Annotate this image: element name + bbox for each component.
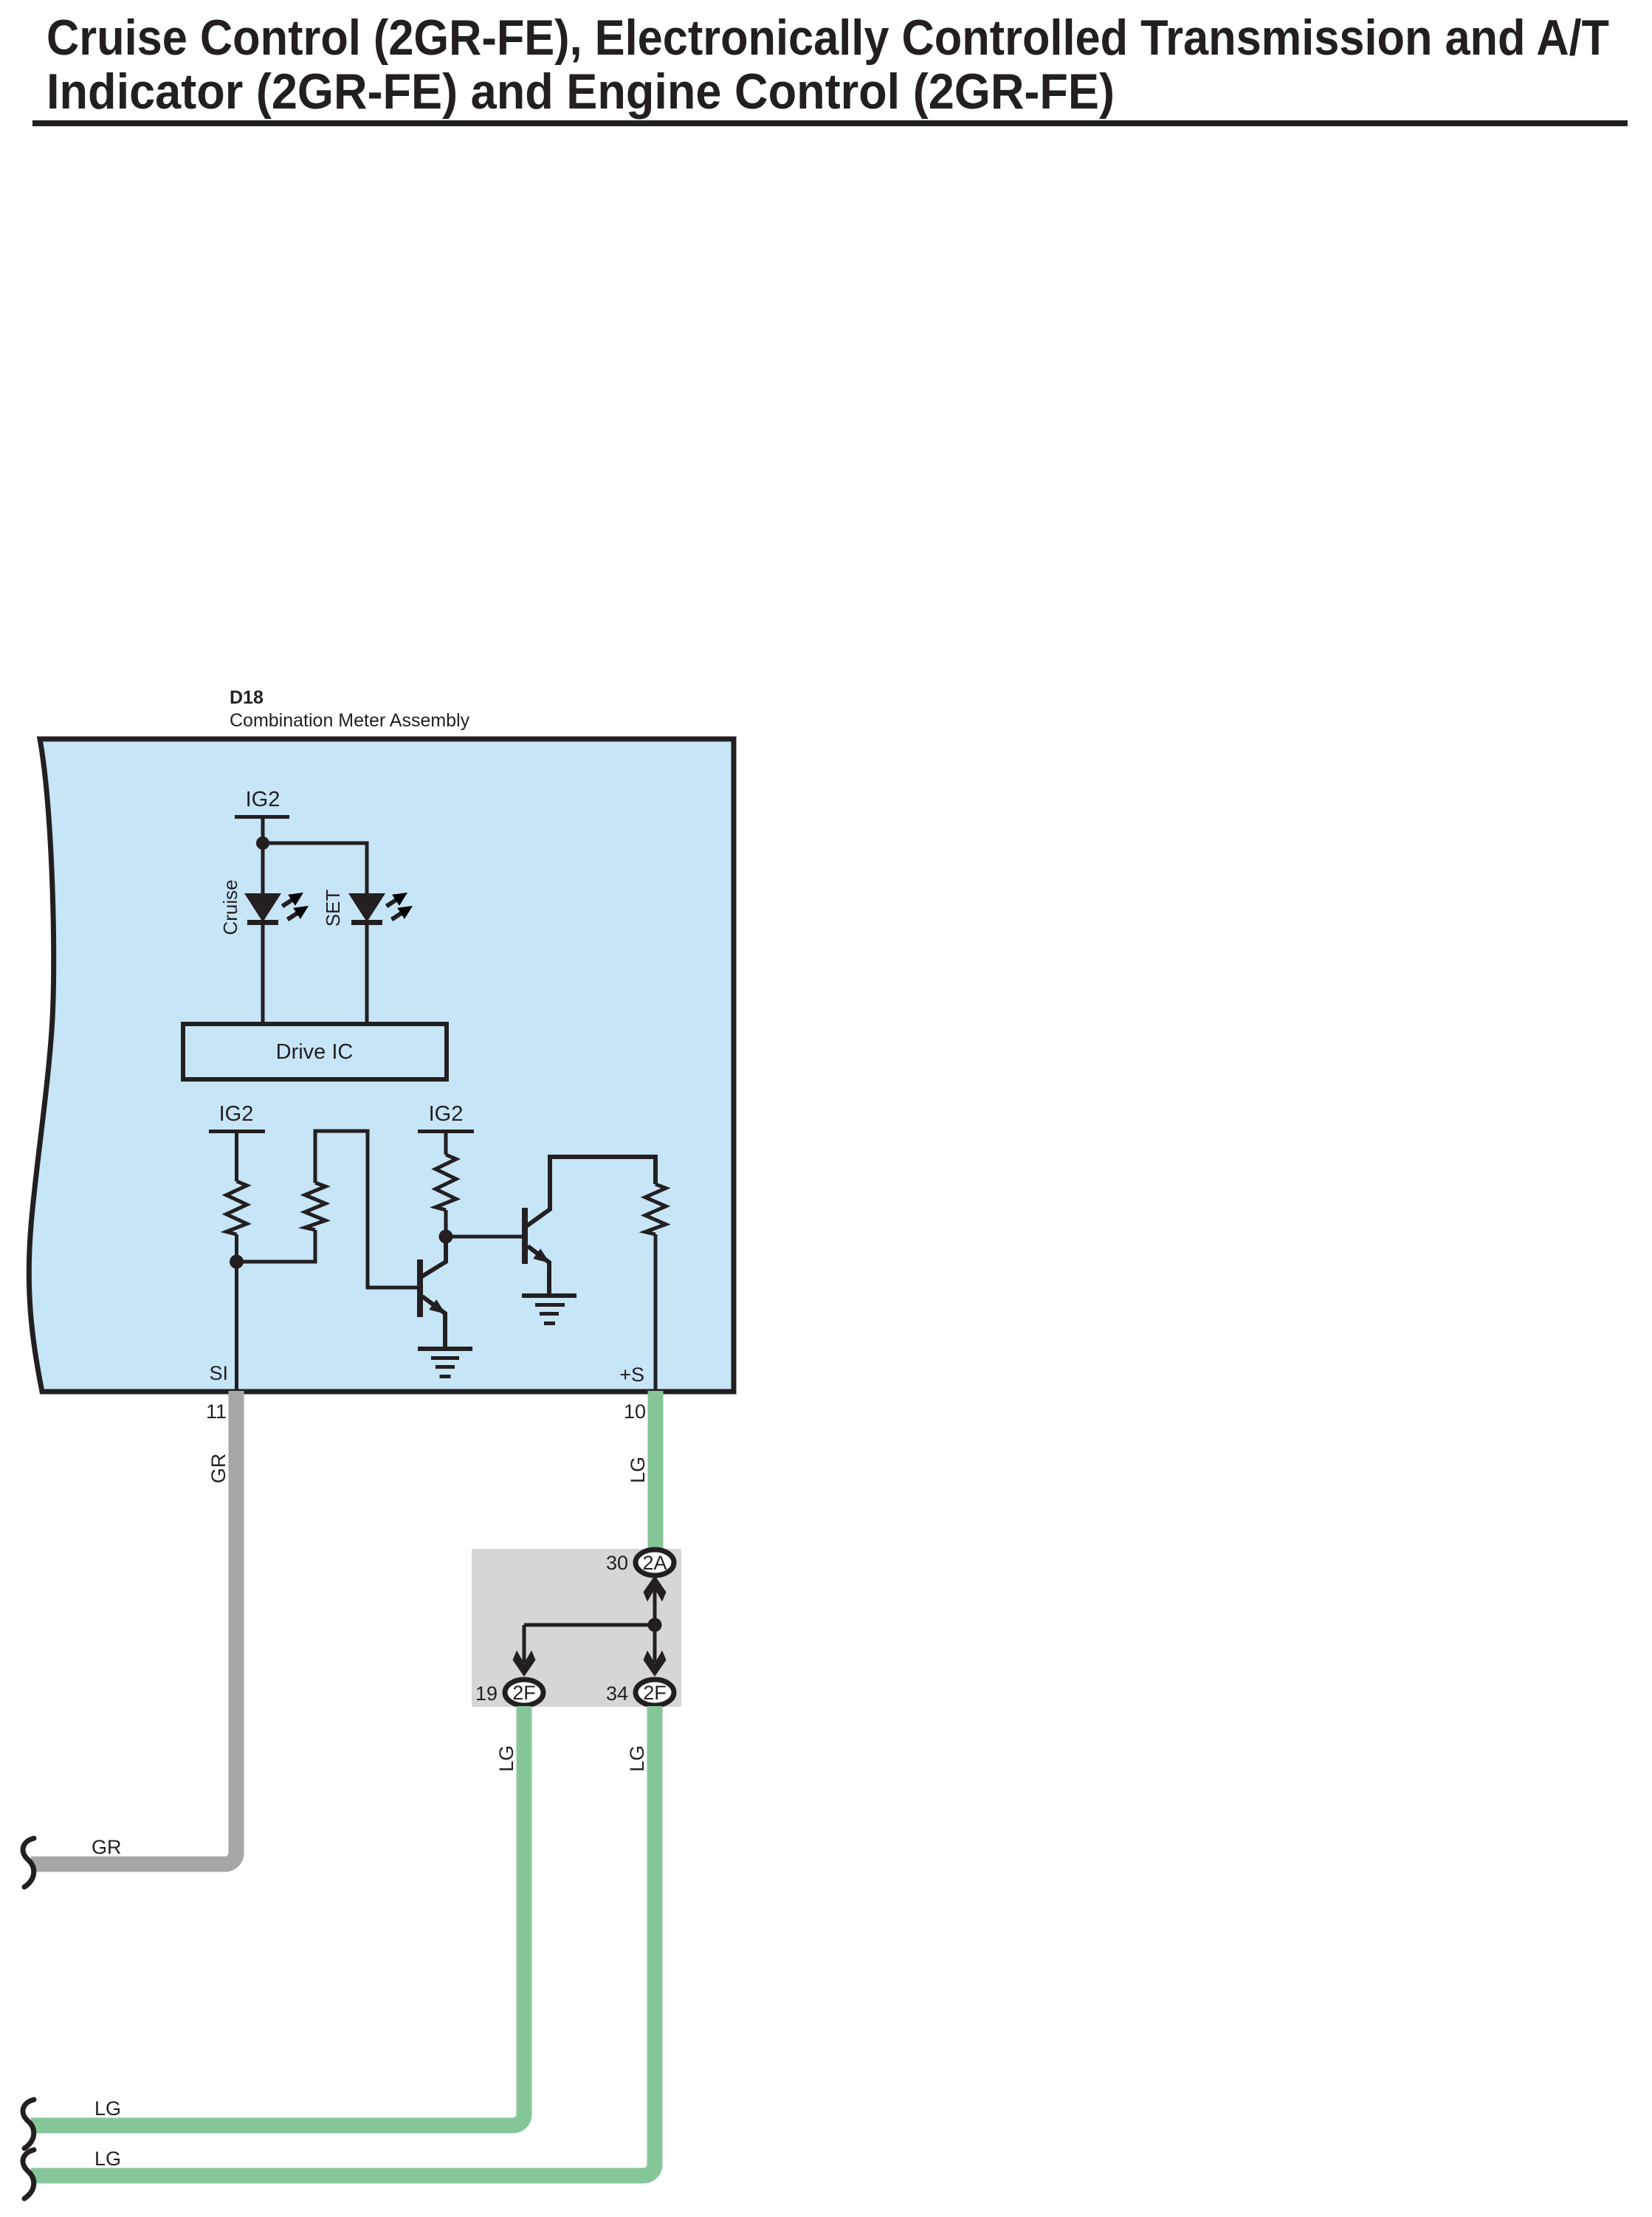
resistor R2	[305, 1183, 326, 1230]
svg-text:IG2: IG2	[246, 788, 281, 811]
connector 2F pin 34	[606, 1680, 674, 1705]
resistor R1	[227, 1181, 247, 1234]
svg-text:SI: SI	[209, 1362, 228, 1384]
break symbol (GR wire)	[23, 1838, 34, 1887]
arrow down to 2F (34)	[644, 1651, 667, 1677]
svg-text:IG2: IG2	[429, 1102, 464, 1126]
svg-text:34: 34	[606, 1682, 628, 1705]
svg-text:+S: +S	[619, 1364, 644, 1386]
arrow up into 2A	[644, 1575, 667, 1602]
svg-text:10: 10	[624, 1400, 646, 1423]
svg-text:IG2: IG2	[219, 1102, 254, 1126]
connector 2F pin 19	[475, 1680, 543, 1705]
svg-text:Combination Meter Assembly: Combination Meter Assembly	[230, 710, 470, 731]
LED Cruise	[219, 879, 312, 1024]
svg-text:2F: 2F	[643, 1682, 667, 1704]
connector 2A pin 30	[606, 1550, 674, 1575]
node J2	[230, 1255, 244, 1269]
svg-text:Cruise: Cruise	[219, 879, 241, 935]
wire LG from 2F-19 (green)	[31, 1706, 524, 2125]
wire +S lead	[654, 1234, 658, 1390]
svg-text:19: 19	[475, 1682, 498, 1705]
LED SET	[322, 887, 416, 1024]
wire SI lead	[235, 1234, 238, 1390]
svg-text:LG: LG	[94, 2097, 121, 2120]
wire LG from +S (green)	[648, 1391, 664, 1548]
svg-text:D18: D18	[230, 687, 264, 708]
page title	[32, 10, 1628, 126]
wire	[444, 1210, 448, 1237]
transistor Q2	[522, 1157, 655, 1294]
svg-text:30: 30	[606, 1552, 628, 1574]
node J1	[256, 836, 269, 850]
svg-text:Cruise Control (2GR-FE), Elect: Cruise Control (2GR-FE), Electronically …	[47, 10, 1609, 66]
svg-text:2F: 2F	[512, 1682, 536, 1704]
power rail IG2 (top)	[235, 788, 289, 894]
node J3	[439, 1230, 453, 1244]
arrow down to 2F (19)	[513, 1651, 536, 1677]
break symbol (LG wire upper)	[23, 2100, 34, 2148]
connector label D18	[230, 687, 470, 731]
svg-text:2A: 2A	[642, 1552, 667, 1574]
transistor Q1	[417, 1237, 450, 1347]
svg-text:GR: GR	[92, 1836, 122, 1858]
component box D18 Combination Meter Assembly	[29, 739, 734, 1392]
svg-text:LG: LG	[495, 1745, 517, 1772]
svg-text:Indicator (2GR-FE) and Engine: Indicator (2GR-FE) and Engine Control (2…	[47, 63, 1115, 120]
svg-text:SET: SET	[322, 890, 344, 927]
ground G1	[418, 1347, 472, 1378]
svg-text:11: 11	[206, 1400, 227, 1423]
wire Q2 base lead	[446, 1235, 522, 1239]
svg-text:LG: LG	[626, 1745, 648, 1772]
junction block (gray)	[472, 1549, 681, 1707]
ground G2	[522, 1293, 577, 1325]
wire	[237, 1230, 316, 1262]
wire	[315, 1131, 417, 1288]
break symbol (LG wire lower)	[23, 2150, 34, 2199]
svg-text:GR: GR	[207, 1454, 230, 1484]
wire	[263, 843, 367, 894]
wire GR (gray)	[31, 1391, 236, 1864]
svg-text:LG: LG	[627, 1457, 649, 1483]
resistor R4	[645, 1184, 666, 1234]
wire LG from 2F-34 (green)	[31, 1706, 655, 2176]
power rail IG2 (middle-right)	[418, 1102, 474, 1155]
wire in junction block	[524, 1587, 655, 1663]
node J4	[648, 1618, 662, 1632]
power rail IG2 (middle-left)	[209, 1102, 265, 1181]
svg-text:LG: LG	[94, 2148, 121, 2170]
resistor R3	[436, 1155, 456, 1210]
IC Drive IC	[183, 1024, 447, 1079]
svg-text:Drive IC: Drive IC	[276, 1040, 354, 1064]
